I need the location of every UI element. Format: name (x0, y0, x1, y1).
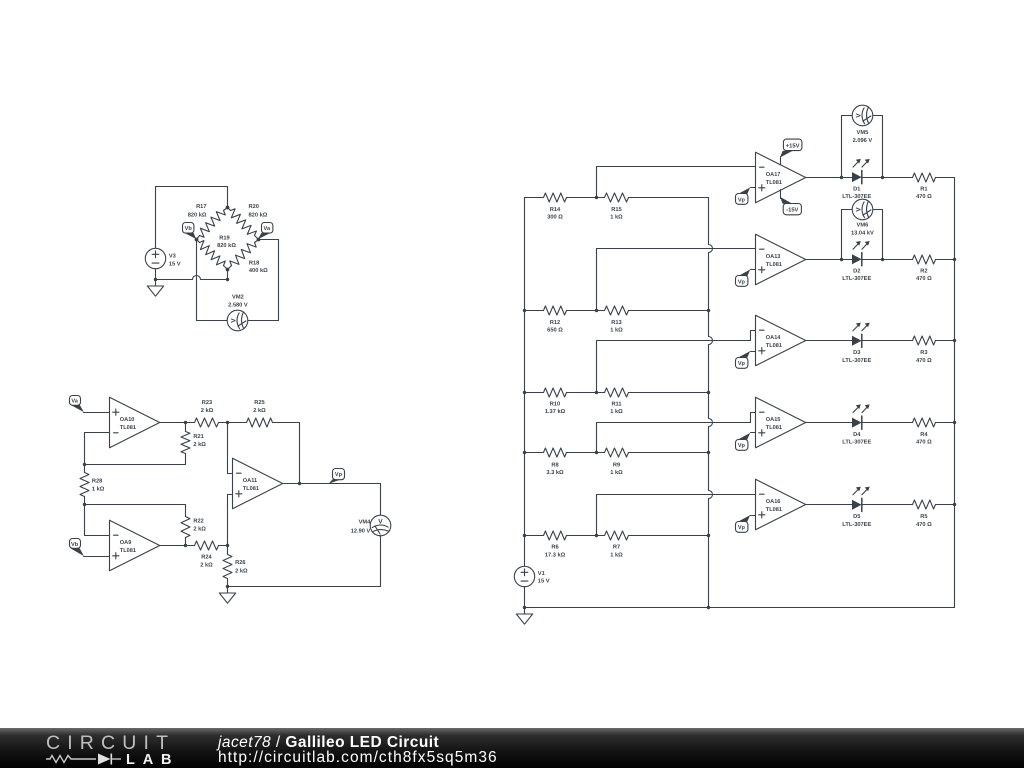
svg-text:LTL-307EE: LTL-307EE (842, 522, 871, 528)
wire R22 top lead (185, 505, 187, 517)
voltmeter VM4 (370, 515, 391, 536)
svg-text:R17: R17 (196, 204, 206, 210)
wire jog at OA14 input (750, 331, 752, 341)
svg-text:820 kΩ: 820 kΩ (217, 242, 236, 249)
svg-text:R1: R1 (920, 187, 927, 193)
svg-text:470 Ω: 470 Ω (916, 440, 932, 446)
svg-text:D4: D4 (853, 432, 861, 438)
resistor R22 body (181, 517, 190, 538)
node tap-to-op-amp row 5 (596, 495, 598, 536)
resistor R20 body (231, 209, 257, 236)
op-amp OA17 (756, 152, 806, 203)
svg-text:D1: D1 (853, 187, 860, 193)
resistor R28 body (80, 473, 89, 497)
svg-text:R23: R23 (202, 400, 212, 406)
wire OA11 + stub (228, 494, 233, 496)
svg-text:Va: Va (71, 398, 78, 404)
wire diode to R2 (862, 259, 913, 261)
voltmeter VM2 (227, 310, 248, 331)
resistor R24 body (195, 541, 219, 550)
wire R21 bottom lead (185, 454, 187, 465)
op-amp OA16 (756, 479, 806, 530)
svg-text:TL081: TL081 (243, 486, 259, 492)
wire left bus (524, 198, 526, 567)
svg-text:LTL-307EE: LTL-307EE (842, 440, 871, 446)
junction mid bus row 3 (707, 391, 710, 394)
junction left bus row 4 (523, 451, 526, 454)
resistor R4 body (913, 418, 936, 427)
svg-text:R20: R20 (249, 204, 259, 210)
junction bridge bottom (226, 278, 229, 281)
svg-text:OA14: OA14 (766, 335, 782, 341)
svg-text:R19: R19 (219, 235, 229, 241)
svg-text:2 kΩ: 2 kΩ (253, 407, 266, 414)
svg-text:3.3 kΩ: 3.3 kΩ (546, 469, 564, 476)
wire to OA11 - (227, 423, 229, 474)
wire OA14 + stub (751, 351, 756, 353)
wire R1 right lead (936, 177, 955, 179)
svg-text:R8: R8 (551, 462, 558, 468)
resistor R3 body (913, 336, 936, 345)
svg-text:1 kΩ: 1 kΩ (610, 327, 623, 334)
svg-text:820 kΩ: 820 kΩ (188, 211, 207, 218)
svg-text:TL081: TL081 (120, 548, 136, 554)
svg-text:1 kΩ: 1 kΩ (610, 408, 623, 415)
wire Vb to OA9 + (84, 556, 110, 558)
wire R6 left lead (525, 535, 544, 537)
flag Va (bridge) (258, 233, 271, 239)
node tap-to-op-amp row 3 (596, 341, 598, 393)
wire bottom bus left part (525, 607, 709, 609)
wire bridge bottom to node (227, 270, 229, 280)
resistor R10 body (544, 388, 567, 397)
wire Va to OA10 + (84, 412, 110, 414)
junction mid bus row 2 (707, 309, 710, 312)
resistor R2 body (913, 255, 936, 264)
svg-text:Vp: Vp (738, 197, 746, 203)
svg-text:TL081: TL081 (766, 425, 782, 431)
wire bottom horizontal with hop over Vb column (156, 279, 193, 281)
svg-text:CIRCUIT: CIRCUIT (46, 732, 171, 754)
svg-text:V3: V3 (169, 254, 176, 260)
junction tap 3 (595, 391, 598, 394)
wire hop (193, 276, 201, 280)
wire down to feedback node (84, 433, 86, 465)
svg-text:15 V: 15 V (538, 579, 550, 585)
svg-text:R4: R4 (920, 432, 928, 438)
junction left bus row 3 (523, 391, 526, 394)
svg-text:R6: R6 (551, 545, 558, 551)
wire bottom return (228, 586, 381, 588)
LED D1 (852, 172, 862, 182)
LED D3 (852, 336, 862, 346)
junction left bus row 5 (523, 534, 526, 537)
svg-text:LTL-307EE: LTL-307EE (842, 194, 871, 200)
wire R3 right lead (936, 340, 955, 342)
svg-text:OA17: OA17 (766, 172, 781, 178)
ground (inst amp) (227, 587, 229, 594)
resistor R14 body (544, 193, 567, 202)
op-amp OA9 (110, 520, 160, 571)
svg-text:2.580 V: 2.580 V (228, 302, 248, 308)
svg-text:R15: R15 (611, 207, 621, 213)
wire right column down (278, 240, 280, 321)
resistor R6 body (544, 531, 567, 540)
resistor R11 body (605, 388, 629, 397)
wire diode to R5 (862, 504, 913, 506)
resistor R18 body (230, 243, 256, 266)
ground (LED driver) (524, 608, 526, 615)
svg-text:D5: D5 (853, 514, 860, 520)
resistor R19 body (200, 241, 226, 266)
LED D5 (852, 500, 862, 510)
op-amp OA10 (110, 397, 160, 448)
junction ground node (226, 585, 229, 588)
wire R10 left lead (525, 392, 544, 394)
wire R7 right lead (629, 535, 709, 537)
svg-text:15 V: 15 V (169, 261, 181, 267)
svg-text:R28: R28 (92, 479, 102, 485)
wire R25 right (273, 422, 300, 424)
wire R14 left lead (525, 197, 544, 199)
op-amp OA11 (233, 458, 283, 509)
wire to VM2 right (249, 320, 279, 322)
wire OA11 output (284, 483, 381, 485)
svg-text:V1: V1 (538, 571, 545, 577)
flag -15V (780, 190, 782, 199)
svg-text:R21: R21 (193, 434, 203, 440)
wire OA14 output (806, 340, 853, 342)
node bridge top (226, 206, 230, 210)
svg-text:R3: R3 (920, 350, 927, 356)
node tap-to-op-amp row 4 (596, 423, 598, 453)
LED D2 (852, 254, 862, 264)
wire OA16 + stub (751, 515, 756, 517)
wire top of bridge (156, 186, 228, 188)
wire R21 top lead (185, 423, 187, 432)
wire R8 left lead (525, 452, 544, 454)
wire Va node right (259, 239, 279, 241)
svg-text:TL081: TL081 (766, 262, 782, 268)
junction tap 5 (595, 534, 598, 537)
svg-text:-15V: -15V (786, 208, 798, 214)
svg-text:TL081: TL081 (766, 507, 782, 513)
junction right bus row 2 (953, 258, 956, 261)
svg-text:R9: R9 (613, 462, 620, 468)
resistor R1 body (913, 173, 936, 182)
op-amp OA14 (756, 315, 806, 366)
logo diode symbol (98, 754, 111, 765)
resistor R7 body (605, 531, 629, 540)
svg-text:TL081: TL081 (120, 425, 136, 431)
wire R23-R25 (219, 422, 247, 424)
wire R9 right lead (629, 452, 709, 454)
svg-text:+15V: +15V (786, 143, 800, 149)
op-amp OA15 (756, 397, 806, 448)
flag Vp OA14 (738, 351, 750, 358)
svg-text:V: V (230, 318, 237, 323)
wire feedback to R22 top (85, 504, 186, 506)
svg-text:LAB: LAB (126, 752, 172, 768)
svg-text:VM2: VM2 (232, 295, 244, 301)
wire to VM2 left (197, 320, 228, 322)
resistor R21 body (181, 432, 190, 454)
wire R15 right lead (629, 197, 709, 199)
svg-text:OA9: OA9 (120, 540, 132, 546)
wire to OA9 - input (85, 535, 110, 537)
wire R12 left lead (525, 310, 544, 312)
junction VM6 left (840, 258, 843, 261)
junction mid bus bottom (707, 606, 710, 609)
junction R21/R23 (184, 421, 187, 424)
junction VM5 right (881, 176, 884, 179)
wire Vb node down to VM2 (196, 240, 198, 321)
wire R26 top lead (227, 546, 229, 555)
node Vb (195, 238, 199, 242)
svg-text:2 kΩ: 2 kΩ (193, 526, 206, 533)
wire OA10 - left (85, 432, 110, 434)
svg-text:400 kΩ: 400 kΩ (249, 267, 268, 274)
svg-text:V: V (378, 518, 383, 525)
svg-text:2.096 V: 2.096 V (853, 138, 873, 144)
junction R28 top (83, 463, 86, 466)
wire R5 right lead (936, 504, 955, 506)
resistor R15 body (605, 193, 629, 202)
wire R26 bottom lead (227, 579, 229, 587)
svg-text:R24: R24 (201, 555, 212, 561)
flag Vp OA15 (738, 433, 750, 440)
wire V3 top (155, 187, 157, 249)
wire VM4 bottom (380, 536, 382, 587)
junction bottom-left (523, 606, 526, 609)
svg-text:R25: R25 (254, 400, 264, 406)
svg-text:Vp: Vp (738, 443, 746, 449)
wire OA11 + down to R24 node (227, 495, 229, 546)
svg-text:470 Ω: 470 Ω (916, 276, 932, 282)
resistor R12 body (544, 306, 567, 315)
svg-text:1 kΩ: 1 kΩ (92, 485, 105, 492)
svg-text:R5: R5 (920, 514, 927, 520)
svg-text:Vb: Vb (71, 541, 79, 548)
wire R11 right lead (629, 392, 709, 394)
svg-text:OA16: OA16 (766, 499, 781, 505)
junction right bus row 5 (953, 503, 956, 506)
junction R22/R24 (184, 544, 187, 547)
voltmeter VM6 loop wires (841, 210, 843, 260)
svg-text:17.3 kΩ: 17.3 kΩ (545, 551, 566, 558)
wire diode to R4 (862, 422, 913, 424)
svg-text:LTL-307EE: LTL-307EE (842, 276, 871, 282)
svg-text:R12: R12 (550, 320, 560, 326)
voltmeter VM5 loop wires (841, 116, 843, 178)
svg-text:13.04 kV: 13.04 kV (851, 229, 874, 236)
svg-text:1.37 kΩ: 1.37 kΩ (545, 408, 566, 415)
wire hop over feed 5 (709, 491, 713, 499)
svg-text:VM5: VM5 (857, 130, 869, 136)
svg-text:TL081: TL081 (766, 343, 782, 349)
svg-text:OA11: OA11 (243, 478, 257, 484)
resistor R23 body (195, 418, 219, 427)
svg-text:R7: R7 (613, 545, 620, 551)
svg-text:Vb: Vb (185, 225, 193, 232)
svg-text:TL081: TL081 (766, 180, 782, 186)
svg-text:R11: R11 (611, 401, 621, 407)
svg-text:Vp: Vp (738, 279, 746, 285)
wire V3 bottom (155, 270, 157, 280)
wire bottom bus right part (709, 607, 955, 609)
wire into bridge top node (227, 187, 229, 208)
voltage source V1 (514, 566, 534, 586)
wire OA13 output (806, 259, 853, 261)
junction VM5 left (840, 176, 843, 179)
svg-text:12.90 V: 12.90 V (351, 529, 371, 535)
svg-text:1 kΩ: 1 kΩ (610, 551, 623, 558)
svg-text:300 Ω: 300 Ω (547, 215, 563, 221)
wire OA9 output (161, 545, 195, 547)
resistor R26 body (223, 555, 232, 579)
junction left bus row 2 (523, 309, 526, 312)
svg-text:V: V (855, 113, 862, 118)
wire OA17 + stub (751, 187, 756, 189)
op-amp OA13 (756, 234, 806, 285)
svg-text:R14: R14 (550, 207, 561, 213)
svg-text:R13: R13 (611, 320, 621, 326)
wire hop over feed 3 (709, 337, 713, 345)
svg-text:LTL-307EE: LTL-307EE (842, 358, 871, 364)
wire middle bus (with hops) (708, 198, 710, 245)
node tap-to-op-amp row 1 (596, 167, 598, 198)
resistor R8 body (544, 448, 567, 457)
flag Vp OA13 (738, 270, 750, 277)
svg-text:R22: R22 (193, 518, 203, 524)
svg-text:OA15: OA15 (766, 417, 781, 423)
svg-text:R26: R26 (235, 560, 245, 566)
wire OA11 - stub (228, 473, 233, 475)
junction VM6 right (881, 258, 884, 261)
flag Vp (output) (329, 479, 343, 484)
junction R24/R26 (226, 544, 229, 547)
wire V1 bottom (524, 587, 526, 608)
svg-text:Va: Va (264, 226, 271, 232)
wire R22 bottom lead (185, 538, 187, 546)
junction V3/ground (154, 278, 157, 281)
wire R24 right (219, 545, 228, 547)
wire diode to R3 (862, 340, 913, 342)
svg-text:1 kΩ: 1 kΩ (610, 214, 623, 221)
flag Vp OA17 (738, 187, 750, 194)
svg-text:V: V (855, 207, 862, 212)
svg-text:1 kΩ: 1 kΩ (610, 469, 623, 476)
wire jog at OA15 input (750, 413, 752, 423)
wire hop over feed 4 (709, 419, 713, 427)
svg-text:D3: D3 (853, 350, 860, 356)
junction feedback/output (298, 482, 301, 485)
junction tap 4 (595, 451, 598, 454)
resistor R17 body (200, 211, 226, 238)
wire hop over feed 2 (709, 245, 713, 253)
node Va (257, 238, 261, 242)
junction tap 1 (595, 196, 598, 199)
junction R28 bottom (83, 503, 86, 506)
svg-text:OA13: OA13 (766, 254, 781, 260)
wire OA13 + stub (751, 269, 756, 271)
svg-text:2 kΩ: 2 kΩ (201, 407, 214, 414)
voltmeter VM6 (852, 199, 873, 220)
resistor R13 body (605, 306, 629, 315)
wire R25 to output node (299, 423, 301, 484)
junction mid bus row 5 (707, 534, 710, 537)
wire OA15 + stub (751, 432, 756, 434)
svg-text:R18: R18 (249, 260, 259, 266)
wire down to VM4 (380, 484, 382, 516)
svg-text:650 Ω: 650 Ω (547, 328, 563, 334)
svg-text:820 kΩ: 820 kΩ (249, 211, 268, 218)
resistor R5 body (913, 500, 936, 509)
ground (bridge) (155, 280, 157, 287)
wire right bus (954, 178, 956, 608)
svg-text:470 Ω: 470 Ω (916, 194, 932, 200)
svg-text:OA10: OA10 (120, 417, 135, 423)
svg-text:470 Ω: 470 Ω (916, 522, 932, 528)
voltage source V3 (145, 248, 165, 268)
resistor R9 body (605, 448, 629, 457)
svg-text:2 kΩ: 2 kΩ (193, 441, 206, 448)
junction tap 2 (595, 309, 598, 312)
wire R13 right lead (629, 310, 709, 312)
node bridge bottom (226, 268, 230, 272)
wire feedback to R21 bottom (85, 464, 186, 466)
node tap-to-op-amp row 2 (596, 249, 598, 311)
junction right bus row 4 (953, 421, 956, 424)
svg-text:Vp: Vp (738, 361, 746, 367)
svg-text:VM4: VM4 (359, 520, 372, 526)
flag Vp OA16 (738, 515, 750, 522)
logo resistor symbol (46, 756, 96, 763)
flag Va (input) (70, 405, 84, 412)
svg-text:R2: R2 (920, 269, 927, 275)
junction right bus row 3 (953, 339, 956, 342)
LED D4 (852, 418, 862, 428)
wire OA10 output (161, 422, 195, 424)
svg-text:VM6: VM6 (857, 223, 869, 229)
flag Vb (bridge) (184, 233, 196, 239)
wire OA15 output (806, 422, 853, 424)
wire diode to R1 (862, 177, 913, 179)
svg-text:R10: R10 (550, 401, 560, 407)
svg-text:2 kΩ: 2 kΩ (235, 567, 248, 574)
svg-text:2 kΩ: 2 kΩ (200, 561, 213, 568)
junction mid bus row 4 (707, 451, 710, 454)
svg-text:Vp: Vp (335, 472, 343, 478)
svg-text:Vp: Vp (738, 525, 746, 531)
wire OA17 output (806, 177, 853, 179)
voltmeter VM5 (852, 105, 873, 126)
flag Vb (input) (70, 548, 84, 556)
wire R2 right lead (936, 259, 955, 261)
wire down to OA9 - (84, 505, 86, 536)
svg-text:470 Ω: 470 Ω (916, 358, 932, 364)
flag +15V (780, 157, 782, 165)
wire OA16 output (806, 504, 853, 506)
resistor R25 body (247, 418, 273, 427)
wire R4 right lead (936, 422, 955, 424)
junction R23/R25 (226, 421, 229, 424)
svg-text:D2: D2 (853, 269, 860, 275)
